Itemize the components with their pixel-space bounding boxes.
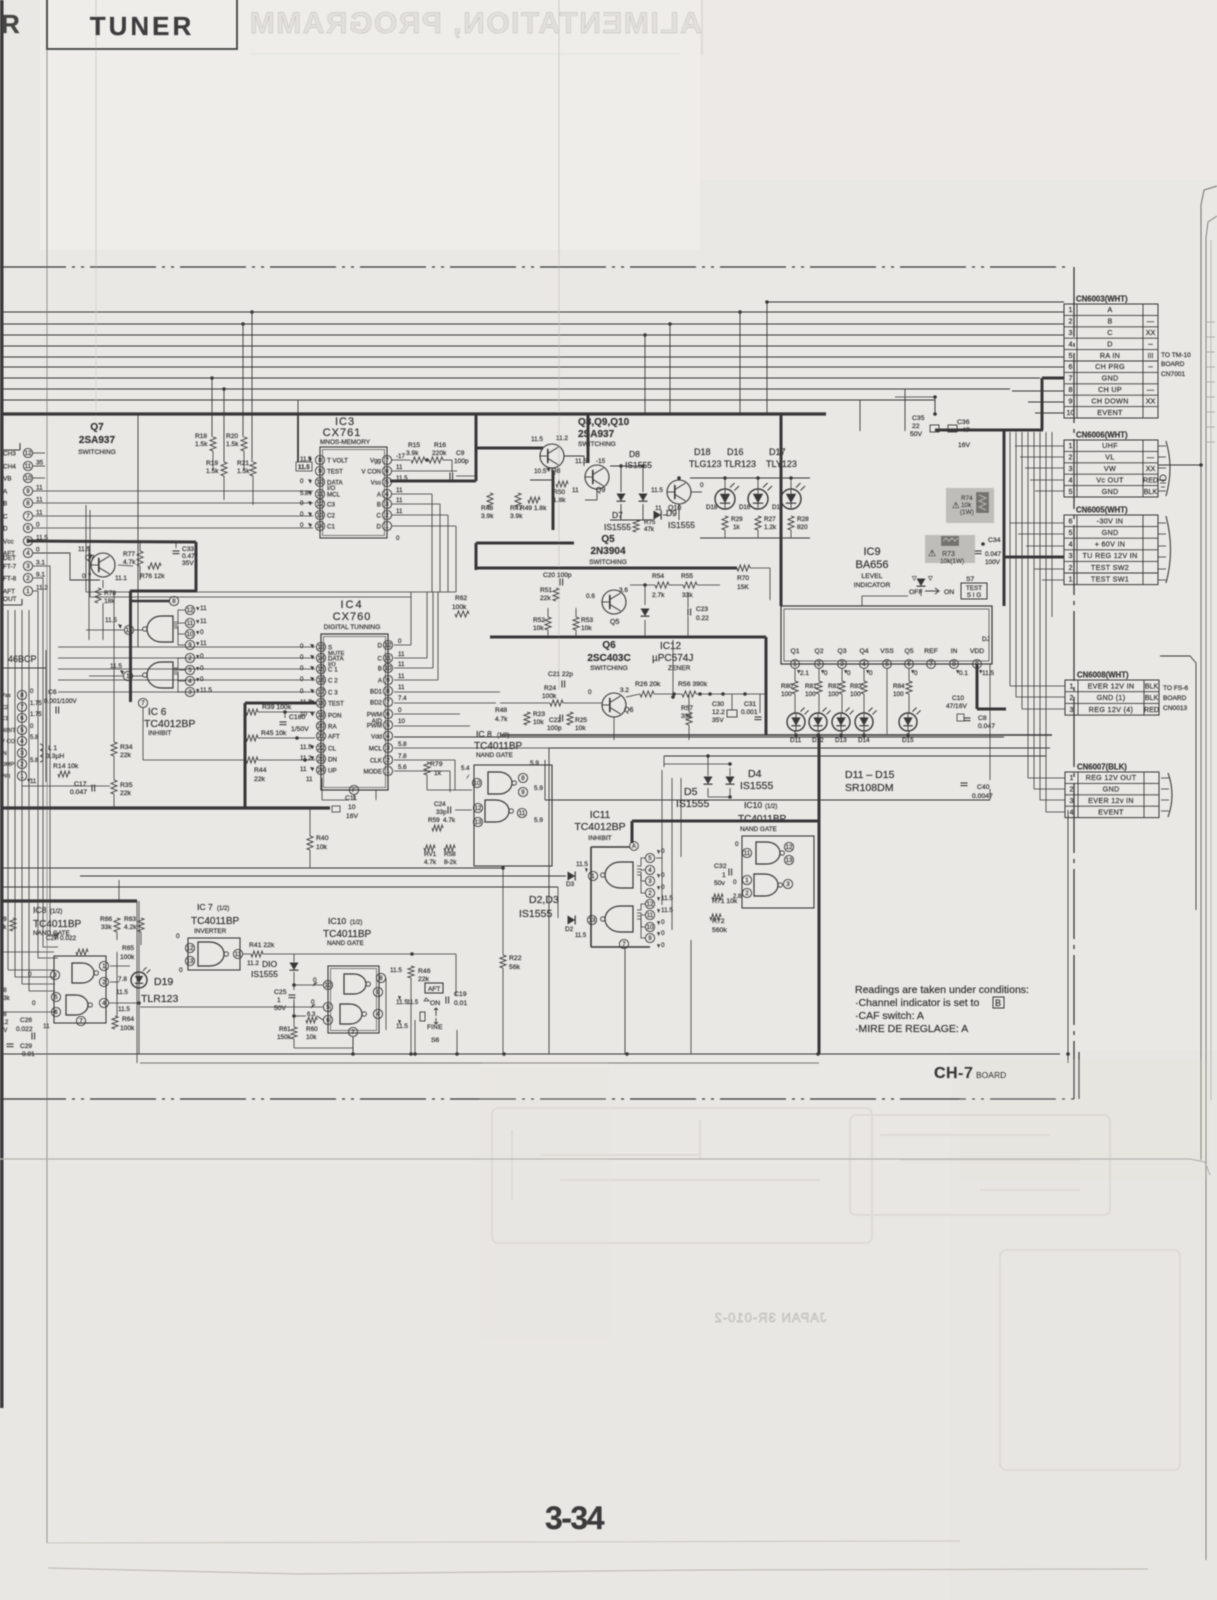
svg-text:11.2: 11.2 [36,585,48,592]
svg-text:3: 3 [1069,328,1073,337]
svg-text:Q1: Q1 [790,648,799,655]
svg-text:IC4: IC4 [340,599,363,611]
svg-text:1.5k: 1.5k [195,441,208,448]
svg-text:D17: D17 [769,447,786,457]
svg-text:0.22: 0.22 [696,615,709,622]
svg-text:R63: R63 [124,916,136,923]
svg-text:69: 69 [0,917,7,923]
svg-text:0: 0 [176,933,180,940]
svg-text:CH4: CH4 [3,464,16,471]
svg-text:9: 9 [521,789,525,796]
svg-text:INHIBIT: INHIBIT [148,730,171,737]
svg-text:5.6: 5.6 [398,764,407,771]
svg-text:11: 11 [396,508,403,515]
svg-text:7: 7 [20,704,24,711]
svg-text:11: 11 [200,605,207,612]
svg-text:L 1: L 1 [48,745,57,752]
svg-text:C40: C40 [977,784,990,791]
svg-text:TC4011BP: TC4011BP [474,741,523,752]
svg-text:2: 2 [1069,317,1073,326]
svg-text:6: 6 [26,525,30,532]
svg-text:3: 3 [786,881,790,888]
svg-text:A: A [1107,305,1112,314]
svg-text:BLK: BLK [1145,693,1159,702]
svg-text:RED: RED [1143,475,1158,484]
svg-text:2: 2 [817,661,821,668]
svg-text:11: 11 [200,618,207,625]
svg-text:0: 0 [733,879,737,886]
svg-text:R57: R57 [681,705,693,712]
svg-text:C 3: C 3 [328,690,338,697]
svg-text:50V: 50V [274,1005,287,1012]
svg-text:IC12: IC12 [660,641,682,652]
svg-text:C2: C2 [327,513,335,520]
svg-text:6: 6 [20,715,24,722]
svg-text:16V: 16V [346,813,359,820]
svg-text:0: 0 [179,967,183,974]
svg-text:1: 1 [1069,305,1073,314]
svg-text:NAND GATE: NAND GATE [476,752,513,759]
svg-text:TEST SW1: TEST SW1 [1091,574,1129,583]
svg-text:R16: R16 [434,442,446,449]
svg-text:C33: C33 [182,546,194,553]
svg-text:D9: D9 [666,508,677,518]
svg-text:9.1: 9.1 [36,572,45,579]
svg-text:100k: 100k [120,1025,135,1032]
svg-text:11.5: 11.5 [396,475,408,482]
svg-text:4: 4 [386,733,390,740]
svg-text:4: 4 [862,661,866,668]
svg-text:7: 7 [386,699,390,706]
svg-text:C9: C9 [456,450,465,457]
svg-text:RV1: RV1 [424,851,437,858]
svg-text:SWITCHING: SWITCHING [78,449,116,456]
svg-text:RED: RED [1144,705,1159,714]
svg-text:0V: 0V [0,1028,7,1034]
svg-text:VSS: VSS [880,648,894,655]
svg-text:TC4011BP: TC4011BP [738,814,787,825]
svg-text:R39 100k: R39 100k [262,704,292,711]
svg-text:13: 13 [318,644,325,651]
svg-text:11: 11 [519,810,526,817]
svg-text:R50: R50 [553,489,565,496]
svg-text:9: 9 [975,661,979,668]
svg-text:D2: D2 [565,926,574,933]
svg-text:Q6: Q6 [624,707,633,714]
svg-text:Readings are taken under condi: Readings are taken under conditions: [855,984,1029,996]
svg-text:R44: R44 [254,767,267,774]
svg-text:1.75: 1.75 [30,701,42,707]
svg-text:DIO: DIO [262,959,278,969]
svg-text:0: 0 [300,654,304,661]
svg-text:11.5: 11.5 [396,1023,408,1030]
svg-text:CH DOWN: CH DOWN [1091,396,1128,405]
svg-text:R62: R62 [455,595,467,602]
svg-text:BA656: BA656 [855,559,888,571]
svg-text:5: 5 [20,727,24,734]
svg-text:0: 0 [869,670,873,677]
svg-text:11: 11 [30,779,37,785]
svg-text:D13: D13 [835,737,847,744]
svg-text:21: 21 [318,733,325,740]
svg-text:+ 60V IN: + 60V IN [1095,540,1126,549]
svg-text:820: 820 [797,524,808,531]
svg-text:5.4: 5.4 [461,765,470,772]
svg-text:CL: CL [328,746,336,753]
svg-text:ON: ON [944,589,954,596]
svg-text:C17: C17 [74,781,87,788]
svg-text:0: 0 [661,942,665,949]
svg-text:1: 1 [1069,574,1073,583]
svg-text:R25: R25 [575,717,587,724]
svg-text:0: 0 [300,478,304,485]
svg-text:R70: R70 [737,575,749,582]
svg-text:0: 0 [36,547,40,554]
svg-text:JAPAN 3R-010-2: JAPAN 3R-010-2 [714,1310,827,1325]
svg-text:B: B [995,998,1001,1008]
svg-text:Vc OUT: Vc OUT [1096,475,1124,484]
svg-text:R78: R78 [104,590,116,597]
svg-text:C34: C34 [988,537,1001,544]
svg-text:IS1555: IS1555 [668,520,695,530]
svg-text:4: 4 [1069,339,1073,348]
svg-text:C 2: C 2 [328,678,338,685]
svg-text:C6: C6 [48,689,57,696]
svg-text:0: 0 [28,971,32,978]
svg-text:8: 8 [1069,385,1073,394]
svg-text:INVERTER: INVERTER [194,928,227,935]
svg-text:3: 3 [386,745,390,752]
svg-text:7: 7 [385,457,389,464]
svg-text:MNOS-MEMORY: MNOS-MEMORY [320,439,371,446]
svg-text:3.6: 3.6 [619,587,628,594]
svg-text:1: 1 [1069,441,1073,450]
svg-text:3.9k: 3.9k [510,513,523,520]
svg-text:CX760: CX760 [333,611,372,623]
svg-text:22k: 22k [418,976,430,983]
svg-text:XX: XX [1146,396,1156,405]
svg-text:MUTE: MUTE [328,651,345,657]
svg-text:R48: R48 [481,505,493,512]
svg-text:CN6007(BLK): CN6007(BLK) [1077,763,1127,772]
svg-text:TEST SW2: TEST SW2 [1091,563,1129,572]
svg-text:R22: R22 [509,955,522,962]
svg-text:0: 0 [32,1000,36,1007]
svg-text:11.5: 11.5 [110,663,122,670]
svg-text:0.022: 0.022 [16,1026,33,1033]
svg-text:(1W): (1W) [960,509,974,516]
svg-text:VW: VW [1104,464,1116,473]
svg-text:R18: R18 [195,433,207,440]
svg-text:2: 2 [26,575,30,582]
svg-text:R40: R40 [316,835,329,842]
svg-text:C31: C31 [744,701,756,708]
svg-text:47/16V: 47/16V [946,703,968,710]
svg-text:10: 10 [25,475,32,482]
svg-text:2.1: 2.1 [800,670,809,677]
svg-text:10k(1W): 10k(1W) [940,558,964,565]
svg-text:3: 3 [1069,551,1073,560]
svg-text:R26 20k: R26 20k [635,681,661,688]
svg-text:C11: C11 [345,795,357,802]
svg-text:5.8: 5.8 [30,758,39,764]
svg-text:NAND GATE: NAND GATE [327,940,364,947]
svg-text:TLG123: TLG123 [689,459,722,469]
svg-text:S7: S7 [966,576,975,583]
svg-text:TEST: TEST [966,585,982,592]
svg-text:R51: R51 [540,587,552,594]
svg-text:Q5: Q5 [904,648,913,655]
svg-text:33k: 33k [101,924,112,931]
svg-text:13k: 13k [0,996,11,1002]
svg-text:C26: C26 [20,1017,32,1024]
svg-text:R49 1.8k: R49 1.8k [520,505,547,512]
svg-text:1.2k: 1.2k [764,524,777,531]
svg-text:10k: 10k [533,625,544,632]
svg-text:17: 17 [318,689,325,696]
svg-text:IC11: IC11 [590,810,611,821]
svg-text:11.5: 11.5 [575,933,587,939]
svg-text:7: 7 [26,513,30,520]
svg-text:28: 28 [0,1012,7,1018]
svg-text:4: 4 [1070,807,1074,816]
svg-text:7.4: 7.4 [398,695,407,702]
svg-text:5.8: 5.8 [300,490,309,497]
svg-text:11: 11 [235,951,242,958]
svg-text:0: 0 [36,522,40,529]
svg-text:50V: 50V [910,431,923,438]
svg-text:R28: R28 [797,516,809,523]
svg-text:0: 0 [396,535,400,542]
svg-text:SR108DM: SR108DM [845,782,893,794]
svg-text:35: 35 [36,460,44,467]
svg-text:D: D [1107,339,1113,348]
svg-text:CX761: CX761 [323,427,362,439]
svg-text:RA: RA [328,724,337,731]
svg-text:R29: R29 [731,516,743,523]
svg-text:PPI: PPI [1,774,11,780]
svg-text:CLK: CLK [370,758,383,765]
svg-text:10k: 10k [533,719,544,726]
svg-text:13: 13 [786,857,793,864]
svg-text:0: 0 [300,522,304,529]
svg-text:(1/2): (1/2) [497,733,509,739]
svg-text:1.5k: 1.5k [206,468,219,475]
svg-text:4: 4 [20,738,24,745]
svg-text:4: 4 [26,550,30,557]
svg-text:R15: R15 [408,442,420,449]
svg-text:3: 3 [1069,464,1073,473]
svg-text:2.2: 2.2 [0,1020,9,1026]
svg-text:R47: R47 [510,505,522,512]
svg-text:-17: -17 [396,453,406,460]
svg-text:IC8: IC8 [33,905,47,915]
svg-text:(1/2): (1/2) [350,920,362,926]
svg-text:22k: 22k [540,595,551,602]
svg-text:16V: 16V [958,442,971,449]
svg-text:D5: D5 [684,786,698,798]
svg-text:11.5: 11.5 [576,861,588,868]
svg-text:0: 0 [398,638,402,645]
svg-text:IS1555: IS1555 [625,460,652,470]
svg-text:—: — [1147,385,1155,394]
svg-text:4.2k: 4.2k [124,924,137,931]
svg-text:8: 8 [318,457,322,464]
svg-text:0: 0 [200,665,204,672]
svg-text:R23: R23 [533,711,545,718]
svg-text:12: 12 [385,642,392,649]
svg-text:TEST: TEST [327,469,343,476]
svg-text:BD2: BD2 [370,700,383,707]
svg-text:5: 5 [326,1004,330,1011]
svg-text:12: 12 [187,945,194,952]
svg-text:Q6: Q6 [602,640,616,651]
svg-text:EVENT: EVENT [1098,807,1124,816]
svg-text:R81: R81 [805,683,817,690]
svg-text:3.2: 3.2 [620,687,629,694]
svg-text:(1/2): (1/2) [217,906,229,912]
svg-text:1: 1 [386,768,390,775]
svg-text:7: 7 [351,1029,355,1036]
svg-text:2: 2 [385,512,389,519]
svg-text:6: 6 [1069,362,1073,371]
svg-text:R79: R79 [430,761,443,768]
svg-text:EVENT: EVENT [1097,408,1123,417]
svg-text:TLR123: TLR123 [141,993,179,1005]
svg-text:0.47: 0.47 [182,553,195,560]
svg-text:5: 5 [648,855,652,862]
svg-text:C8: C8 [978,715,987,722]
svg-text:3: 3 [385,501,389,508]
svg-text:4.7k: 4.7k [123,559,136,566]
svg-text:4: 4 [648,867,652,874]
svg-text:3.1: 3.1 [36,560,45,567]
svg-text:4.7k: 4.7k [495,716,508,723]
svg-text:D15: D15 [902,737,914,744]
svg-text:IS1555: IS1555 [519,908,552,920]
svg-text:CN6008(WHT): CN6008(WHT) [1077,671,1129,680]
svg-text:Q8,Q9,Q10: Q8,Q9,Q10 [578,417,630,428]
svg-text:11: 11 [25,463,32,470]
svg-text:0: 0 [200,676,204,683]
svg-text:1k: 1k [733,524,741,531]
svg-text:R52: R52 [533,617,545,624]
svg-text:R59: R59 [428,817,440,824]
svg-text:IN: IN [1,751,7,757]
svg-text:11.5: 11.5 [105,617,117,624]
svg-text:V CO: V CO [1,739,16,745]
svg-text:8-2k: 8-2k [444,859,457,866]
svg-text:R19: R19 [206,460,218,467]
svg-text:5: 5 [885,661,889,668]
svg-text:C24: C24 [434,801,446,808]
svg-text:11.5: 11.5 [200,687,212,694]
svg-text:2: 2 [1069,453,1073,462]
svg-text:8: 8 [379,975,383,982]
svg-text:5: 5 [54,994,58,1001]
svg-text:0: 0 [300,643,304,650]
svg-text:CN6005(WHT): CN6005(WHT) [1076,506,1128,515]
svg-text:UHF: UHF [1102,441,1118,450]
svg-text:C32: C32 [714,863,727,870]
svg-text:13: 13 [589,917,596,924]
svg-text:5: 5 [1069,487,1073,496]
svg-text:3: 3 [1070,705,1074,714]
svg-text:11.5: 11.5 [298,464,310,471]
svg-text:20: 20 [318,723,325,730]
svg-text:OFF: OFF [909,589,923,596]
svg-text:11.5: 11.5 [118,1006,130,1013]
svg-text:10.5: 10.5 [534,468,547,475]
svg-text:11: 11 [300,766,307,773]
svg-text:0: 0 [914,670,918,677]
svg-text:10: 10 [348,804,356,811]
svg-text:10: 10 [1067,408,1075,417]
svg-text:D16: D16 [727,447,744,457]
svg-text:6: 6 [385,468,389,475]
svg-text:IC 8: IC 8 [476,729,492,739]
svg-text:3: 3 [188,689,192,696]
svg-text:D: D [3,526,8,533]
svg-text:11: 11 [396,464,403,471]
svg-text:C27: C27 [46,935,58,942]
svg-text:D19: D19 [154,976,173,988]
svg-text:12.2: 12.2 [712,709,725,716]
svg-text:18: 18 [318,700,325,707]
svg-text:B: B [1107,317,1112,326]
svg-text:XX: XX [1146,328,1156,337]
svg-text:0: 0 [300,500,304,507]
svg-text:CH-7: CH-7 [934,1065,973,1082]
svg-text:CH PRG: CH PRG [1095,362,1125,371]
svg-text:11: 11 [398,661,405,668]
svg-text:0k: 0k [0,925,7,931]
svg-text:5: 5 [385,479,389,486]
svg-text:D12: D12 [812,737,824,744]
svg-text:0: 0 [200,629,204,636]
svg-text:11: 11 [647,912,654,919]
svg-text:FINE: FINE [427,1024,443,1031]
svg-text:10k: 10k [581,625,592,632]
svg-text:OMPI: OMPI [1,762,16,768]
svg-text:10: 10 [474,780,481,787]
svg-text:TUNER: TUNER [90,11,195,41]
svg-text:C180: C180 [289,714,305,721]
svg-text:BOARD: BOARD [976,1070,1006,1080]
svg-text:8: 8 [521,775,525,782]
svg-text:5.9: 5.9 [534,785,543,792]
svg-text:D4: D4 [748,768,762,780]
svg-text:IS1555: IS1555 [251,969,278,979]
svg-text:11.5: 11.5 [982,670,994,677]
svg-text:IC10: IC10 [328,916,346,926]
svg-text:NAND GATE: NAND GATE [740,826,777,833]
svg-text:2.7k: 2.7k [652,592,665,599]
svg-text:10: 10 [647,924,654,931]
svg-text:SWITCHING: SWITCHING [578,441,616,448]
svg-text:11.5: 11.5 [390,967,402,974]
svg-text:0: 0 [661,930,665,937]
svg-text:—: — [1147,453,1155,462]
svg-text:R73: R73 [942,551,955,558]
svg-text:100p: 100p [454,458,469,465]
svg-text:11.5: 11.5 [78,546,90,553]
svg-text:BLK: BLK [1145,681,1159,690]
svg-text:4.7k: 4.7k [443,817,456,824]
svg-text:0: 0 [300,676,304,683]
svg-text:9: 9 [648,935,652,942]
svg-text:13: 13 [475,819,482,826]
